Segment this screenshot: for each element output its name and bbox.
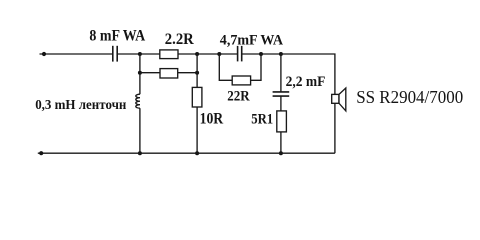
node C: junction top rail / 22R loop left <box>217 52 221 56</box>
node: bottom input terminal dot <box>39 151 43 155</box>
speaker LS1 cone <box>339 88 346 111</box>
resistor R3 10R (vertical box) <box>192 87 202 107</box>
wire: bottom rail <box>38 152 335 154</box>
resistor R4 22R (box, parallel with C2) <box>232 76 250 85</box>
node J: 5R1 to bottom rail <box>279 151 283 155</box>
node D: junction top rail / 22R loop right <box>259 52 263 56</box>
resistor R5 5R1 (vertical box) <box>277 111 287 132</box>
svg-text:4,7mF WA: 4,7mF WA <box>220 32 283 49</box>
svg-text:2.2R: 2.2R <box>165 31 195 48</box>
node F: junction inductor branch / lower 2.2R branch <box>138 71 142 75</box>
wire: 22R loop left side <box>219 54 232 80</box>
wire: R2 to node H <box>178 72 197 74</box>
wire: coil to bottom rail <box>139 108 141 153</box>
svg-text:0,3 mH ленточн: 0,3 mH ленточн <box>35 97 126 112</box>
inductor L1 0,3mH coil (4 arcs) <box>136 94 140 108</box>
wire: speaker lower drop to bottom rail <box>334 103 336 153</box>
capacitor C1 8mF (series, top rail) <box>113 46 117 62</box>
wire: C3 to R5 <box>280 96 282 111</box>
wire: inductor branch upper segment <box>139 54 141 73</box>
svg-text:SS R2904/7000: SS R2904/7000 <box>356 87 463 107</box>
resistor R2 2.2R (lower box, parallel with R1) <box>160 69 178 78</box>
wire: R3 to bottom rail <box>196 107 198 153</box>
node E: junction top rail / 2,2mF branch <box>279 52 283 56</box>
wire: R5 to bottom rail <box>280 132 282 153</box>
wire: node D to node E <box>261 53 281 55</box>
wire: node B down to R3 <box>196 54 198 87</box>
wire: 22R loop right side <box>251 54 261 80</box>
node G: inductor to bottom rail <box>138 151 142 155</box>
node: top input terminal dot <box>42 52 46 56</box>
wire: R1 to node B <box>178 53 197 55</box>
svg-text:8 mF WA: 8 mF WA <box>89 27 146 44</box>
wire: C2 to node D <box>242 53 261 55</box>
wire: node F to R2 <box>140 72 160 74</box>
wire: node E to speaker drop corner <box>281 54 335 94</box>
wire: C1 to R1 <box>118 53 160 55</box>
wire: node C to C2 <box>219 53 237 55</box>
svg-text:2,2 mF: 2,2 mF <box>286 74 326 90</box>
svg-text:10R: 10R <box>200 110 224 127</box>
svg-text:5R1: 5R1 <box>251 112 273 128</box>
wire: node F down to coil <box>139 73 141 95</box>
node H: lower 2.2R branch joins 10R column <box>195 71 199 75</box>
speaker LS1 driver box <box>332 94 339 103</box>
node A: junction top rail / inductor branch <box>138 52 142 56</box>
node I: 10R to bottom rail <box>195 151 199 155</box>
wire: node E down to C3 <box>280 54 282 92</box>
wire: node B to node C <box>197 53 219 55</box>
svg-text:22R: 22R <box>227 88 250 104</box>
resistor R1 2.2R (top box) <box>160 50 178 59</box>
wire: top rail from input to C1 <box>40 53 113 55</box>
capacitor C3 2,2mF (vertical branch) <box>273 92 290 96</box>
capacitor C2 4,7mF (series, top rail) <box>238 46 242 62</box>
node B: junction top rail / 10R branch <box>195 52 199 56</box>
